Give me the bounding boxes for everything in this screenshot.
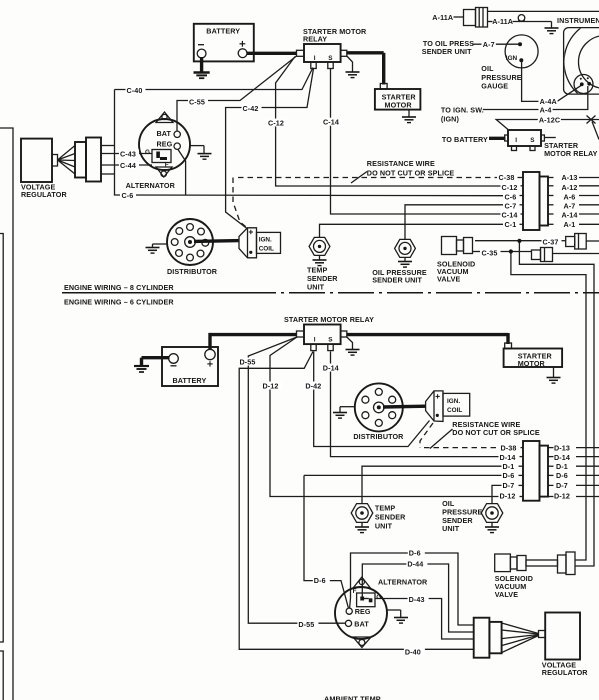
svg-text:BATTERY: BATTERY — [173, 376, 207, 385]
svg-text:OIL: OIL — [442, 499, 455, 508]
svg-text:TEMP: TEMP — [307, 265, 327, 274]
svg-text:GAUGE: GAUGE — [481, 82, 508, 91]
svg-text:D-7: D-7 — [503, 481, 515, 490]
svg-text:D-55: D-55 — [240, 357, 256, 366]
svg-text:C-12: C-12 — [268, 118, 284, 127]
svg-text:ENGINE WIRING – 6 CYLINDER: ENGINE WIRING – 6 CYLINDER — [64, 298, 174, 307]
svg-text:G: G — [145, 149, 150, 156]
svg-text:REG: REG — [355, 607, 371, 616]
svg-text:D-1: D-1 — [556, 462, 568, 471]
svg-text:C-40: C-40 — [127, 86, 143, 95]
svg-text:MOTOR: MOTOR — [518, 359, 546, 368]
svg-text:C-55: C-55 — [189, 97, 205, 106]
svg-text:D-42: D-42 — [305, 381, 321, 390]
svg-text:INSTRUMENT: INSTRUMENT — [557, 16, 599, 25]
svg-text:A-11A: A-11A — [492, 17, 513, 26]
svg-text:VALVE: VALVE — [437, 275, 461, 284]
svg-text:C-35: C-35 — [482, 249, 498, 258]
svg-text:I: I — [314, 55, 316, 62]
svg-text:D-14: D-14 — [554, 453, 570, 462]
svg-text:SENDER UNIT: SENDER UNIT — [422, 47, 472, 56]
svg-text:I: I — [515, 137, 517, 144]
svg-text:C-44: C-44 — [120, 161, 136, 170]
svg-text:A-1: A-1 — [564, 220, 576, 229]
svg-text:D-6: D-6 — [314, 576, 326, 585]
svg-text:D-6: D-6 — [503, 471, 515, 480]
svg-text:D-38: D-38 — [501, 443, 517, 452]
svg-text:S: S — [530, 137, 535, 144]
svg-text:SENDER: SENDER — [375, 513, 406, 522]
svg-text:IGN.: IGN. — [447, 398, 460, 405]
svg-text:UNIT: UNIT — [442, 524, 460, 533]
svg-text:D-7: D-7 — [556, 481, 568, 490]
svg-text:C-43: C-43 — [120, 149, 136, 158]
svg-text:A-12C: A-12C — [539, 115, 560, 124]
svg-text:D-14: D-14 — [323, 363, 339, 372]
svg-text:S: S — [328, 55, 333, 62]
svg-text:F: F — [165, 161, 169, 168]
svg-text:C-42: C-42 — [243, 104, 259, 113]
svg-text:AMBIENT TEMP: AMBIENT TEMP — [324, 695, 381, 700]
svg-text:A-12: A-12 — [562, 183, 578, 192]
svg-text:RELAY: RELAY — [303, 35, 327, 44]
svg-text:I: I — [314, 337, 316, 344]
svg-text:D-1: D-1 — [503, 462, 515, 471]
svg-text:D-6: D-6 — [556, 471, 568, 480]
svg-text:PRESSURE: PRESSURE — [481, 73, 521, 82]
svg-text:SENDER UNIT: SENDER UNIT — [372, 275, 422, 284]
svg-text:OIL: OIL — [481, 64, 494, 73]
svg-text:C-14: C-14 — [323, 118, 339, 127]
svg-text:(IGN): (IGN) — [441, 114, 460, 123]
svg-text:TEMP: TEMP — [375, 504, 395, 513]
svg-text:REGULATOR: REGULATOR — [21, 190, 67, 199]
svg-text:D-40: D-40 — [405, 647, 421, 656]
svg-text:MOTOR: MOTOR — [385, 101, 413, 110]
svg-text:DO NOT CUT OR SPLICE: DO NOT CUT OR SPLICE — [367, 168, 455, 177]
svg-text:D-43: D-43 — [409, 595, 425, 604]
svg-text:A-13: A-13 — [562, 173, 578, 182]
svg-text:ENGINE WIRING – 8 CYLINDER: ENGINE WIRING – 8 CYLINDER — [64, 283, 174, 292]
svg-text:DISTRIBUTOR: DISTRIBUTOR — [167, 267, 218, 276]
svg-text:D-12: D-12 — [554, 491, 570, 500]
svg-text:COIL: COIL — [259, 246, 274, 253]
svg-text:IGN.: IGN. — [259, 237, 272, 244]
svg-text:A-14: A-14 — [562, 210, 578, 219]
svg-text:C-1: C-1 — [505, 220, 517, 229]
svg-text:BAT: BAT — [157, 129, 172, 138]
svg-text:ALTERNATOR: ALTERNATOR — [378, 578, 428, 587]
svg-text:D-14: D-14 — [500, 453, 516, 462]
svg-text:A-11A: A-11A — [432, 13, 453, 22]
svg-text:TO IGN. SW.: TO IGN. SW. — [441, 105, 484, 114]
svg-text:D-6: D-6 — [409, 548, 421, 557]
svg-text:C-14: C-14 — [502, 210, 518, 219]
svg-text:D-55: D-55 — [298, 620, 314, 629]
svg-text:A-4: A-4 — [540, 106, 552, 115]
svg-text:G: G — [376, 594, 381, 601]
svg-text:S: S — [328, 337, 333, 344]
svg-text:D-12: D-12 — [500, 491, 516, 500]
svg-text:RESISTANCE WIRE: RESISTANCE WIRE — [367, 159, 435, 168]
svg-text:VALVE: VALVE — [495, 590, 519, 599]
svg-text:D-13: D-13 — [554, 443, 570, 452]
svg-text:BAT: BAT — [354, 620, 369, 629]
svg-text:COIL: COIL — [447, 407, 462, 414]
svg-text:BATTERY: BATTERY — [206, 27, 240, 36]
svg-text:A-7: A-7 — [483, 40, 495, 49]
svg-text:C-12: C-12 — [502, 183, 518, 192]
svg-text:STARTER MOTOR RELAY: STARTER MOTOR RELAY — [284, 315, 374, 324]
svg-text:A-7: A-7 — [564, 201, 576, 210]
svg-text:C-6: C-6 — [122, 191, 134, 200]
svg-text:TO BATTERY: TO BATTERY — [442, 135, 488, 144]
svg-text:A-6: A-6 — [564, 192, 576, 201]
svg-text:DISTRIBUTOR: DISTRIBUTOR — [353, 432, 404, 441]
svg-text:MOTOR RELAY: MOTOR RELAY — [544, 149, 598, 158]
svg-text:REG: REG — [157, 140, 173, 149]
svg-text:C-6: C-6 — [505, 192, 517, 201]
svg-text:REGULATOR: REGULATOR — [542, 668, 588, 677]
svg-text:D-44: D-44 — [407, 559, 423, 568]
svg-text:C-37: C-37 — [543, 237, 559, 246]
svg-text:IGN: IGN — [506, 55, 518, 62]
svg-text:D-12: D-12 — [263, 381, 279, 390]
svg-text:ALTERNATOR: ALTERNATOR — [126, 181, 176, 190]
svg-text:C-7: C-7 — [505, 201, 517, 210]
svg-text:C-38: C-38 — [499, 173, 515, 182]
svg-text:UNIT: UNIT — [307, 283, 325, 292]
svg-text:DO NOT CUT OR SPLICE: DO NOT CUT OR SPLICE — [452, 428, 540, 437]
svg-text:F: F — [353, 588, 357, 595]
svg-text:UNIT: UNIT — [375, 522, 393, 531]
